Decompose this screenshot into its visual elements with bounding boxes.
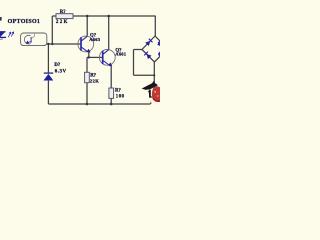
svg-text:A663: A663 <box>89 37 101 42</box>
svg-text:R?: R? <box>60 10 66 15</box>
bridge diode bottom-right <box>158 50 165 57</box>
svg-text:OPTOISO1: OPTOISO1 <box>8 19 41 25</box>
wire bottom rail <box>48 103 150 105</box>
wire Q2 collector to rail <box>108 16 110 50</box>
optoisolator LED (cut off at edge) <box>0 31 6 39</box>
svg-text:100: 100 <box>116 95 125 100</box>
bridge diode top-right <box>158 41 165 48</box>
svg-text:6.3V: 6.3V <box>55 69 67 74</box>
bridge right-arm diode edge fragments <box>158 41 160 46</box>
node junction dots <box>47 15 155 106</box>
svg-text:D?: D? <box>54 63 60 68</box>
svg-text:A661: A661 <box>115 52 127 57</box>
wire right drop to bridge <box>154 16 156 36</box>
svg-text:22K: 22K <box>90 79 99 84</box>
resistor R2 22K bottom <box>85 72 100 83</box>
wire 22K drop from base node <box>86 57 88 72</box>
wire loop bottom horizontal <box>134 74 155 76</box>
cut-off text at left edge <box>0 17 2 21</box>
wire R100 to bottom rail <box>110 98 112 104</box>
wire zener drop lower <box>47 81 49 104</box>
wire Q1 emitter to Q2 base <box>87 56 103 58</box>
svg-text:R?: R? <box>115 89 121 94</box>
bell / buzzer (red, cut off at edge) <box>142 81 160 104</box>
bridge diode top-left <box>145 39 152 46</box>
transistor Q2 <box>99 48 126 66</box>
wire zener drop upper <box>47 44 49 73</box>
wire bridge left corner stub <box>134 49 143 51</box>
wire Q1 collector to rail <box>86 16 88 36</box>
wire 22K to bottom rail <box>86 83 88 104</box>
resistor R3 100 <box>109 88 125 100</box>
svg-text:22K: 22K <box>56 20 69 25</box>
optoisolator light arrows <box>8 32 14 37</box>
wire top rail <box>52 15 155 17</box>
transistor Q1 <box>78 33 101 52</box>
optoisolator phototransistor <box>24 34 34 45</box>
wire opto collector to Q1 base <box>46 43 81 45</box>
wire left loop drop <box>133 50 135 76</box>
resistor R1 22K top <box>56 10 73 25</box>
zener diode D1 <box>44 63 67 81</box>
wire left drop resistor to base node <box>51 16 53 44</box>
wire Q1 emitter drop <box>88 52 90 58</box>
diode bridge outline <box>142 36 168 62</box>
bridge diode bottom-left <box>144 52 151 59</box>
optoisolator box <box>21 33 47 46</box>
wire Q2 emitter to R100 <box>110 66 112 88</box>
wire bridge bottom to bell <box>153 62 155 84</box>
